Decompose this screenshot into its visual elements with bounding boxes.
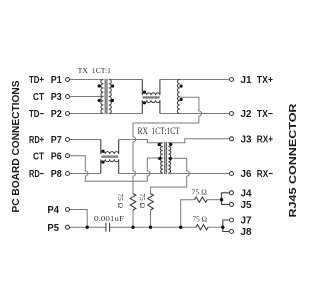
svg-text:P6: P6 xyxy=(51,151,62,162)
svg-text:P1: P1 xyxy=(51,75,62,86)
svg-text:CT: CT xyxy=(33,151,44,162)
svg-text:J8: J8 xyxy=(241,227,252,238)
svg-text:TD+: TD+ xyxy=(29,75,44,86)
svg-text:J3: J3 xyxy=(241,134,252,145)
svg-text:RX 1CT:1CT: RX 1CT:1CT xyxy=(138,126,181,136)
svg-text:RD+: RD+ xyxy=(29,135,44,146)
svg-text:75 Ω: 75 Ω xyxy=(192,189,207,197)
svg-text:J6: J6 xyxy=(241,169,252,180)
svg-text:CT: CT xyxy=(33,92,44,103)
svg-text:P8: P8 xyxy=(51,169,62,180)
svg-text:RD−: RD− xyxy=(29,169,44,180)
svg-text:P2: P2 xyxy=(51,109,62,120)
svg-text:RX−: RX− xyxy=(257,169,273,180)
svg-text:TX+: TX+ xyxy=(257,75,273,86)
svg-text:J1: J1 xyxy=(241,75,252,86)
svg-text:75 Ω: 75 Ω xyxy=(116,193,124,208)
svg-text:P5: P5 xyxy=(47,223,59,234)
svg-text:0.001uF: 0.001uF xyxy=(94,214,124,223)
svg-text:TX 1CT:1: TX 1CT:1 xyxy=(78,66,112,75)
svg-text:75 Ω: 75 Ω xyxy=(193,215,208,223)
svg-text:PC BOARD CONNECTIONS: PC BOARD CONNECTIONS xyxy=(11,80,22,212)
svg-text:TD−: TD− xyxy=(29,109,44,120)
svg-text:J7: J7 xyxy=(241,216,252,227)
svg-text:P3: P3 xyxy=(51,92,62,103)
svg-text:J2: J2 xyxy=(241,109,252,120)
svg-text:TX−: TX− xyxy=(257,109,273,120)
svg-text:J5: J5 xyxy=(241,200,252,211)
svg-text:75 Ω: 75 Ω xyxy=(138,193,146,208)
svg-text:J4: J4 xyxy=(241,188,252,199)
svg-text:RX+: RX+ xyxy=(257,134,273,145)
svg-text:P4: P4 xyxy=(47,205,59,216)
svg-text:RJ45 CONNECTOR: RJ45 CONNECTOR xyxy=(288,103,299,218)
svg-text:P7: P7 xyxy=(51,135,62,146)
